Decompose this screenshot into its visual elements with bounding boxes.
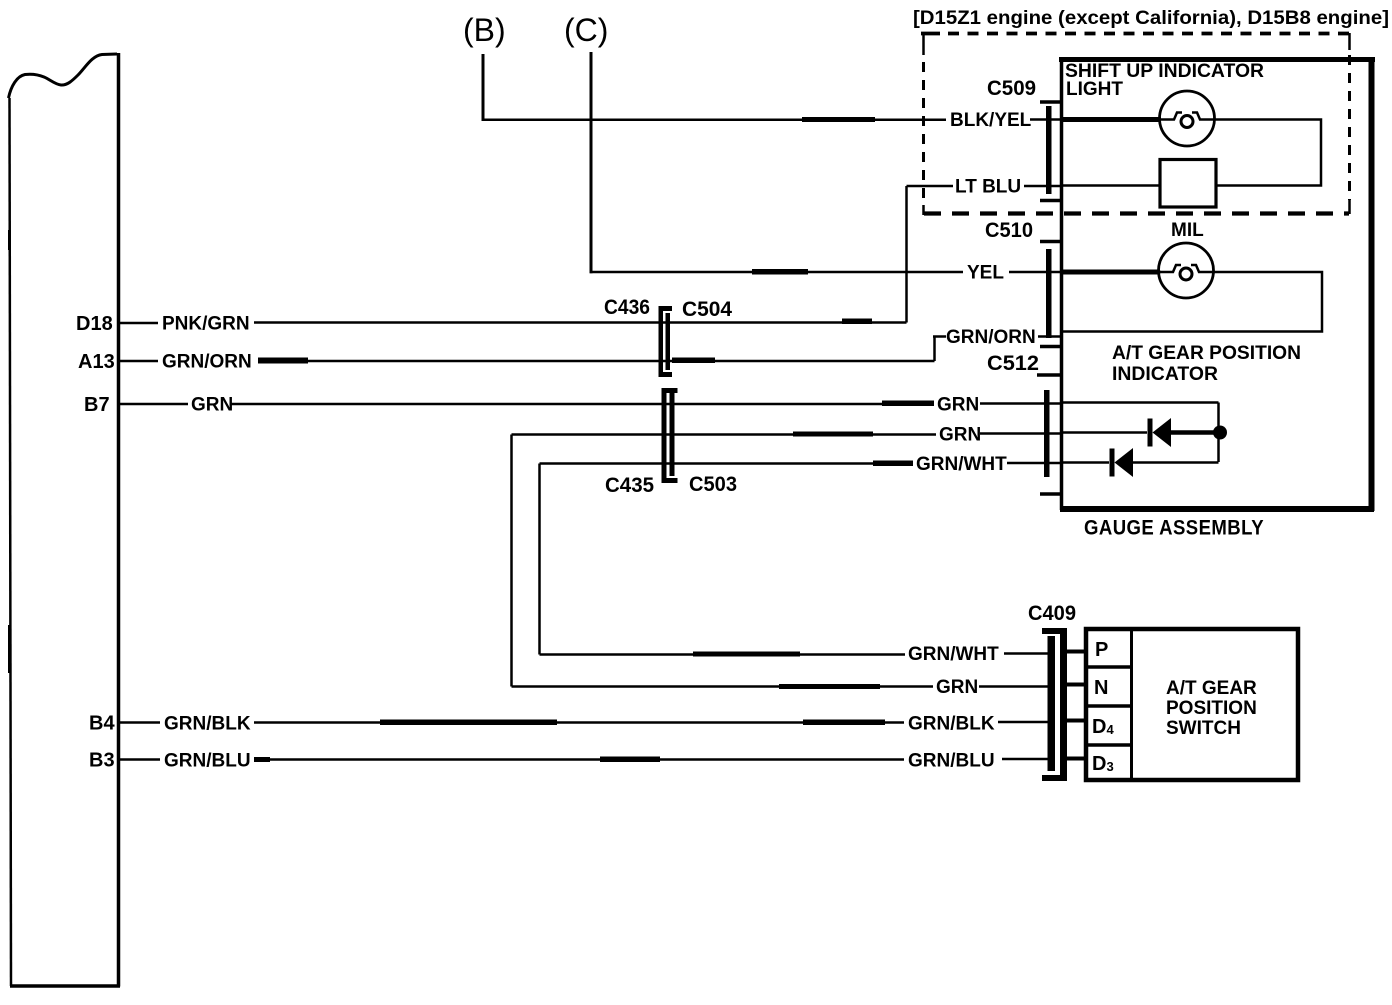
svg-text:C436: C436	[604, 296, 650, 319]
svg-text:YEL: YEL	[967, 263, 1004, 284]
wire GRN from B7 through C435/C503 to C512	[120, 401, 1062, 407]
svg-text:D18: D18	[76, 313, 113, 335]
wire BLK/YEL from (B) to C509	[482, 54, 1161, 122]
svg-text:C510: C510	[985, 219, 1033, 242]
wire GRN/BLU from B3 to C409	[120, 757, 1050, 763]
wire PNK/GRN from D18 through C436/C504 to LT BLU	[120, 319, 907, 325]
svg-text:B4: B4	[89, 713, 115, 735]
lamp: MIL bulb	[1063, 243, 1214, 298]
svg-text:GAUGE ASSEMBLY: GAUGE ASSEMBLY	[1084, 516, 1264, 540]
shift-up resistor/unit box	[1160, 160, 1216, 208]
wire loop from shift-up bulb to resistor box	[1063, 120, 1321, 186]
wire GRN/WHT from C512 down to C409	[540, 461, 1063, 657]
wire GRN inside gauge box to diode junction	[1063, 403, 1219, 463]
svg-text:PNK/GRN: PNK/GRN	[162, 314, 250, 335]
svg-text:GRN: GRN	[937, 395, 979, 416]
svg-text:BLK/YEL: BLK/YEL	[950, 110, 1032, 131]
svg-text:GRN/BLU: GRN/BLU	[908, 751, 995, 772]
svg-text:(C): (C)	[564, 12, 608, 48]
svg-text:B7: B7	[84, 394, 110, 416]
svg-text:POSITION: POSITION	[1166, 698, 1257, 719]
dashed option box	[921, 33, 1350, 215]
diode D2 (on GRN/WHT line)	[1063, 448, 1219, 477]
svg-text:B3: B3	[89, 750, 115, 772]
svg-text:C409: C409	[1028, 602, 1076, 625]
svg-text:N: N	[1094, 677, 1108, 699]
connector C435/C503	[662, 388, 678, 483]
A/T gear position switch box	[1086, 629, 1298, 780]
svg-text:GRN/BLU: GRN/BLU	[164, 751, 251, 772]
connector C510	[1040, 242, 1062, 347]
svg-text:P: P	[1095, 639, 1108, 661]
svg-text:GRN: GRN	[939, 425, 981, 446]
junction dot	[1213, 426, 1227, 440]
svg-text:GRN: GRN	[191, 395, 233, 416]
svg-text:GRN/WHT: GRN/WHT	[908, 644, 999, 665]
wire GRN (second) from C512 down to C409	[512, 432, 1063, 687]
gauge assembly box	[1059, 57, 1375, 511]
svg-text:C503: C503	[689, 473, 737, 496]
svg-text:C504: C504	[682, 298, 732, 321]
wire loop from MIL bulb back to C510 (GRN/ORN)	[1063, 272, 1322, 332]
wire GRN/ORN from C510 to A13	[120, 337, 1062, 364]
wire YEL from (C) to C510	[590, 52, 1161, 275]
svg-text:GRN: GRN	[936, 677, 978, 698]
svg-text:INDICATOR: INDICATOR	[1112, 364, 1218, 385]
svg-text:A/T GEAR POSITION: A/T GEAR POSITION	[1112, 343, 1301, 364]
svg-text:A13: A13	[78, 351, 115, 373]
wire LT BLU from C509 down to PNK/GRN	[907, 186, 1063, 323]
lamp: shift up indicator light bulb	[1063, 91, 1215, 146]
connector C436/C504	[659, 306, 673, 377]
svg-text:GRN/ORN: GRN/ORN	[162, 352, 252, 373]
svg-text:C435: C435	[605, 474, 654, 497]
connector C512	[1037, 375, 1062, 494]
svg-text:GRN/BLK: GRN/BLK	[908, 714, 995, 735]
svg-text:MIL: MIL	[1171, 220, 1204, 241]
svg-text:SWITCH: SWITCH	[1166, 718, 1241, 739]
svg-text:[D15Z1 engine (except Californ: [D15Z1 engine (except California), D15B8…	[913, 8, 1389, 29]
svg-text:(B): (B)	[463, 12, 506, 48]
svg-text:GRN/BLK: GRN/BLK	[164, 714, 251, 735]
connector C509	[1040, 102, 1062, 201]
svg-text:LT BLU: LT BLU	[955, 177, 1021, 198]
svg-text:GRN/WHT: GRN/WHT	[916, 454, 1007, 475]
wiring harness bundle (left, torn top)	[8, 53, 120, 987]
terminal stub wires	[1062, 652, 1086, 759]
svg-text:LIGHT: LIGHT	[1066, 79, 1123, 100]
wire GRN/BLK from B4 to C409	[120, 684, 1050, 725]
svg-text:C509: C509	[987, 77, 1036, 100]
svg-text:A/T GEAR: A/T GEAR	[1166, 678, 1257, 699]
diode D1 (on middle GRN line)	[1063, 418, 1214, 447]
svg-text:GRN/ORN: GRN/ORN	[946, 327, 1036, 348]
terminal cells P N D4 D3	[1086, 629, 1132, 780]
svg-text:C512: C512	[987, 352, 1039, 375]
connector C409	[1042, 628, 1067, 781]
